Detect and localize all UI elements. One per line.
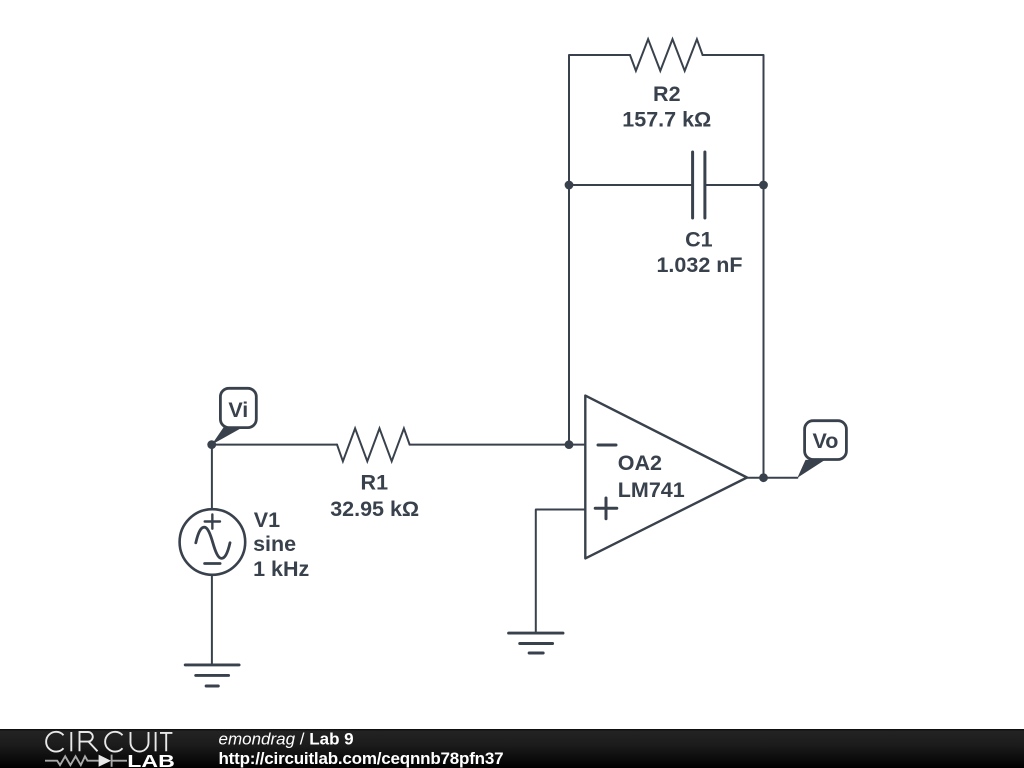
svg-text:R2: R2 xyxy=(653,82,681,106)
svg-text:Vi: Vi xyxy=(228,398,248,422)
ground symbol at op-amp positive input xyxy=(509,633,563,653)
CircuitLab logo diode triangle xyxy=(99,755,111,767)
footer bar background xyxy=(0,729,1024,768)
ground symbol under V1 xyxy=(185,665,239,686)
svg-text:Vo: Vo xyxy=(813,429,839,453)
V1 minus sign xyxy=(205,562,221,565)
wire capacitor branch right xyxy=(705,184,764,186)
voltage source V1 circle xyxy=(180,509,246,575)
wire feedback right: R2 down to output node xyxy=(703,55,764,478)
op-amp inverting pin minus sign xyxy=(598,444,616,447)
wire V1 bottom to ground xyxy=(211,575,213,665)
op-amp OA2 triangle xyxy=(585,396,747,559)
junction node output xyxy=(759,473,768,482)
junction node at inverting input xyxy=(565,440,574,449)
svg-text:1.032 nF: 1.032 nF xyxy=(656,253,742,277)
svg-text:1 kHz: 1 kHz xyxy=(253,557,309,581)
wire op-amp output xyxy=(747,477,797,479)
wire non-inverting input to ground xyxy=(536,510,586,633)
V1 sine waveform xyxy=(196,527,230,558)
svg-text:http://circuitlab.com/ceqnnb78: http://circuitlab.com/ceqnnb78pfn37 xyxy=(219,749,504,768)
svg-text:R1: R1 xyxy=(361,470,389,494)
V1 plus sign xyxy=(205,515,220,529)
CircuitLab logo resistor-diode glyph xyxy=(45,755,127,767)
svg-text:32.95 kΩ: 32.95 kΩ xyxy=(330,497,419,521)
resistor R2 xyxy=(630,39,703,71)
node Vi junction dot xyxy=(207,440,216,449)
svg-text:LM741: LM741 xyxy=(618,478,685,502)
capacitor C1 xyxy=(693,152,705,218)
resistor R1 xyxy=(337,428,410,461)
flag box Vi xyxy=(220,388,256,427)
wire input right segment to op-amp xyxy=(410,444,586,446)
svg-text:V1: V1 xyxy=(254,508,280,532)
flag pointer Vo xyxy=(797,460,825,478)
CircuitLab logo CIRCUIT word xyxy=(46,732,172,752)
svg-text:157.7 kΩ: 157.7 kΩ xyxy=(622,108,711,132)
flag box Vo xyxy=(805,421,847,460)
svg-text:C1: C1 xyxy=(685,228,713,252)
svg-text:emondrag / Lab 9: emondrag / Lab 9 xyxy=(219,730,354,749)
svg-text:OA2: OA2 xyxy=(618,451,662,475)
op-amp non-inverting pin plus sign xyxy=(595,498,617,519)
wire feedback left: inverting node up to R2 xyxy=(569,55,630,445)
svg-text:LAB: LAB xyxy=(127,751,175,768)
svg-text:sine: sine xyxy=(253,532,296,556)
wire input left segment xyxy=(212,444,337,446)
wire Vi node to V1 top xyxy=(211,445,213,510)
junction node cap branch right xyxy=(759,181,768,190)
junction node cap branch left xyxy=(565,181,574,190)
wire capacitor branch left xyxy=(569,184,693,186)
flag pointer Vi xyxy=(212,426,241,445)
